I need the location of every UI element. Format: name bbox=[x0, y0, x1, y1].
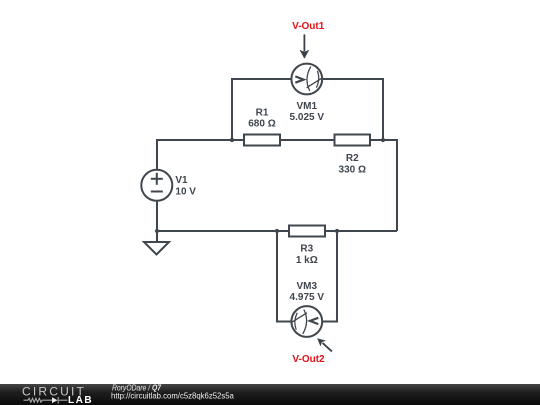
footer logo LAB text bbox=[68, 395, 93, 405]
wire bottom net left segment bbox=[157, 230, 289, 232]
junction node D bbox=[335, 229, 339, 233]
V-Out2 pointer arrow bbox=[317, 338, 332, 351]
wire VM3 left lead bbox=[277, 231, 292, 322]
footer bar background bbox=[0, 384, 540, 405]
voltage source V1 bbox=[141, 170, 172, 201]
wire R2 to right corner and down bbox=[370, 140, 397, 231]
svg-text:5.025 V: 5.025 V bbox=[290, 112, 325, 123]
junction ground node bbox=[155, 229, 159, 233]
svg-text:V1: V1 bbox=[175, 175, 188, 186]
resistor R2 bbox=[335, 135, 371, 146]
svg-text:R2: R2 bbox=[346, 153, 359, 164]
label VM3 bbox=[297, 281, 318, 292]
label VM3 value 4.975 V bbox=[290, 292, 325, 303]
svg-text:LAB: LAB bbox=[68, 395, 93, 405]
label V1 bbox=[175, 175, 188, 186]
node V-Out2 label bbox=[292, 354, 325, 365]
label R2 value 330 ohm bbox=[339, 164, 366, 175]
wire VM1 left lead to node A bbox=[232, 79, 292, 140]
svg-text:R1: R1 bbox=[256, 107, 269, 118]
resistor R1 bbox=[244, 135, 280, 146]
wire top net from V1 to node A bbox=[157, 140, 232, 170]
junction node B bbox=[381, 138, 385, 142]
label V1 value 10 V bbox=[175, 187, 196, 198]
wire R1 to R2 bbox=[280, 139, 335, 141]
junction node A bbox=[230, 138, 234, 142]
junction node C bbox=[275, 229, 279, 233]
voltmeter VM1 bbox=[291, 64, 322, 95]
footer url line bbox=[111, 391, 234, 400]
svg-text:10 V: 10 V bbox=[175, 187, 196, 198]
voltmeter VM3 bbox=[291, 306, 322, 337]
label R3 value 1 kohm bbox=[296, 255, 318, 266]
footer logo resistor-diode symbol bbox=[24, 397, 68, 404]
wire V1 bottom lead bbox=[156, 201, 158, 231]
wire VM3 right lead bbox=[322, 231, 337, 322]
wire bottom net right segment bbox=[325, 230, 397, 232]
V-Out1 pointer arrow bbox=[300, 34, 310, 58]
svg-text:1 kΩ: 1 kΩ bbox=[296, 255, 318, 266]
node V-Out1 label bbox=[292, 21, 325, 32]
ground bbox=[144, 231, 169, 255]
label R1 value 680 ohm bbox=[248, 119, 275, 130]
svg-text:R3: R3 bbox=[300, 243, 313, 254]
svg-text:VM3: VM3 bbox=[297, 281, 318, 292]
svg-text:V-Out2: V-Out2 bbox=[292, 354, 325, 365]
svg-text:V-Out1: V-Out1 bbox=[292, 21, 325, 32]
label R3 bbox=[300, 243, 313, 254]
label VM1 value 5.025 V bbox=[290, 112, 325, 123]
svg-text:680 Ω: 680 Ω bbox=[248, 119, 275, 130]
footer credit line bbox=[112, 383, 162, 393]
svg-text:4.975 V: 4.975 V bbox=[290, 292, 325, 303]
footer logo CIRCUIT text bbox=[22, 385, 86, 399]
svg-text:http://circuitlab.com/c5z8qk6z: http://circuitlab.com/c5z8qk6z52s5a bbox=[111, 391, 234, 400]
resistor R3 bbox=[289, 226, 325, 237]
label R2 bbox=[346, 153, 359, 164]
wire node A to R1 bbox=[232, 139, 244, 141]
svg-text:VM1: VM1 bbox=[297, 101, 318, 112]
wire VM1 right lead to node B bbox=[322, 79, 383, 140]
label VM1 bbox=[297, 101, 318, 112]
svg-text:330 Ω: 330 Ω bbox=[339, 164, 366, 175]
label R1 bbox=[256, 107, 269, 118]
